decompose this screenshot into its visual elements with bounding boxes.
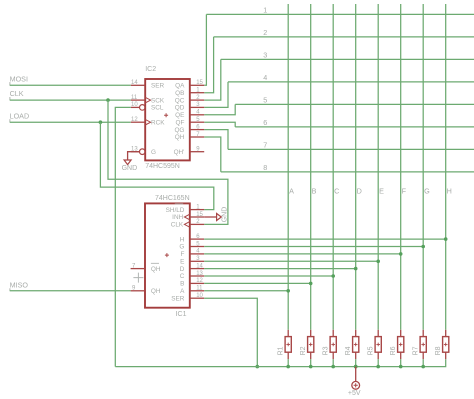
svg-text:R4: R4 (345, 346, 352, 355)
op IC1 74HC165N box (145, 203, 190, 307)
junction SER rail (255, 365, 259, 369)
svg-text:12: 12 (131, 117, 138, 123)
wire MOSI (10, 84, 131, 86)
svg-text:CLK: CLK (10, 89, 24, 98)
svg-text:QA: QA (175, 83, 185, 90)
wire QC to row 3 (204, 59, 221, 100)
pin 1 QB IC2 (190, 92, 204, 94)
pin 4 F IC1 (190, 253, 204, 255)
svg-text:SCL: SCL (151, 105, 164, 112)
svg-text:15: 15 (196, 80, 203, 86)
svg-text:SER: SER (171, 295, 185, 302)
svg-text:IC2: IC2 (145, 66, 156, 73)
wire QA to row 1 (204, 14, 206, 85)
pin 9 QH IC1 (131, 290, 145, 292)
svg-text:14: 14 (196, 263, 203, 269)
pin 13 C IC1 (190, 275, 204, 277)
resistor R4 (355, 330, 357, 337)
svg-text:MISO: MISO (10, 281, 29, 290)
junction R5 rail (376, 365, 380, 369)
pin 10 SCL IC2 (140, 105, 146, 111)
svg-text:F: F (180, 251, 184, 258)
svg-text:GND: GND (221, 207, 228, 223)
svg-text:R1: R1 (278, 346, 285, 355)
wire SER to rail (204, 298, 257, 366)
svg-text:5: 5 (263, 96, 267, 105)
svg-text:13: 13 (196, 271, 203, 277)
wire MISO (10, 290, 131, 292)
wire row net 4 (228, 81, 474, 83)
svg-text:3: 3 (263, 51, 267, 60)
junction R1 rail (286, 365, 290, 369)
wire column net D (355, 4, 357, 330)
overline LD (175, 203, 183, 205)
junction R3 rail (331, 365, 335, 369)
svg-text:QH: QH (175, 134, 185, 141)
svg-text:C: C (334, 186, 339, 195)
svg-text:2: 2 (263, 28, 267, 37)
svg-text:11: 11 (131, 95, 138, 101)
origin cross gray (133, 273, 143, 283)
svg-text:QC: QC (175, 97, 185, 104)
svg-text:H: H (180, 236, 185, 243)
wire column net A (287, 4, 289, 330)
svg-text:RCK: RCK (151, 119, 165, 126)
wire LOAD to IC1 (100, 122, 213, 209)
pin 3 QD IC2 (190, 106, 204, 108)
svg-text:CLK: CLK (171, 222, 184, 229)
pin 1 SH/LD IC1 (190, 209, 204, 211)
svg-text:8: 8 (263, 163, 267, 172)
svg-text:+5V: +5V (348, 390, 361, 397)
svg-text:74HC595N: 74HC595N (145, 163, 180, 170)
pin 12 RCK IC2 (131, 121, 145, 123)
overline QH pin7 (151, 262, 159, 264)
wire SCL to +5V rail (115, 107, 131, 366)
svg-text:11: 11 (196, 286, 203, 292)
svg-text:QB: QB (175, 90, 184, 97)
wire column net E (377, 4, 379, 330)
wire column net B (310, 4, 312, 330)
wire QF to row 6 (204, 122, 235, 127)
wire QB to row 2 (204, 37, 213, 93)
svg-text:GND: GND (122, 165, 138, 172)
svg-text:A: A (180, 288, 185, 295)
wire E input (204, 260, 378, 262)
resistor R5 (377, 330, 379, 337)
pin 6 QG IC2 (190, 129, 204, 131)
junction +5V tap (354, 365, 358, 369)
svg-text:14: 14 (131, 80, 138, 86)
junction F (399, 252, 403, 256)
junction C (331, 274, 335, 278)
ground GND INH (204, 216, 216, 218)
junction H (444, 237, 448, 241)
resistor R1 (287, 330, 289, 337)
svg-text:QH: QH (151, 266, 161, 273)
ground GND IC2 (128, 152, 140, 160)
junction R4 rail (354, 365, 358, 369)
junction D (354, 267, 358, 271)
svg-text:6: 6 (263, 118, 267, 127)
svg-text:10: 10 (196, 293, 203, 299)
pin 11 A IC1 (190, 290, 204, 292)
pin 13 G IC2 (140, 149, 146, 155)
wire LOAD (10, 121, 131, 123)
pin 15 INH IC1 (190, 216, 204, 218)
svg-text:QD: QD (175, 105, 185, 112)
junction CLK (106, 98, 110, 102)
wire row net 3 (221, 58, 474, 60)
wire A input (204, 290, 288, 292)
svg-text:74HC165N: 74HC165N (155, 195, 190, 202)
pin 4 QE IC2 (190, 114, 204, 116)
svg-text:G: G (151, 149, 156, 156)
pin 2 QC IC2 (190, 99, 204, 101)
pin 14 SER IC2 (131, 84, 145, 86)
origin cross IC1 (165, 253, 169, 257)
wire column net C (332, 4, 334, 330)
junction A (286, 289, 290, 293)
pin 11 SCK IC2 (131, 99, 145, 101)
junction E (376, 260, 380, 264)
svg-text:LOAD: LOAD (10, 111, 30, 120)
svg-text:SCK: SCK (151, 97, 165, 104)
wire row net 8 (221, 171, 474, 173)
svg-text:E: E (180, 259, 184, 266)
wire CLK to IC1 (108, 100, 228, 224)
power +5V (355, 367, 357, 382)
svg-text:SER: SER (151, 83, 165, 90)
svg-text:D: D (357, 186, 362, 195)
resistor R6 (400, 330, 402, 337)
wire CLK (10, 99, 131, 101)
wire column net H (445, 4, 447, 330)
svg-text:D: D (180, 266, 185, 273)
svg-text:7: 7 (263, 141, 267, 150)
svg-text:R3: R3 (323, 346, 330, 355)
svg-text:R7: R7 (413, 346, 420, 355)
svg-text:G: G (424, 186, 430, 195)
wire G input (204, 246, 423, 248)
pin 12 B IC1 (190, 282, 204, 284)
wire row net 6 (235, 126, 474, 128)
wire F input (204, 253, 401, 255)
junction R2 rail (309, 365, 313, 369)
pin 9 QH' IC2 (190, 151, 204, 153)
op IC2 74HC595N box (145, 79, 190, 160)
svg-text:10: 10 (131, 102, 138, 108)
svg-text:R6: R6 (390, 346, 397, 355)
svg-text:F: F (402, 186, 407, 195)
svg-text:R2: R2 (300, 346, 307, 355)
svg-text:R8: R8 (435, 346, 442, 355)
svg-text:QH': QH' (174, 149, 185, 156)
wire row net 1 (206, 13, 474, 15)
pin 6 H IC1 (190, 238, 204, 240)
svg-text:G: G (179, 244, 184, 251)
wire row net 5 (235, 103, 474, 105)
wire column net F (400, 4, 402, 330)
svg-text:B: B (180, 281, 184, 288)
wire H input (204, 238, 446, 240)
resistor R3 (332, 330, 334, 337)
pin 7 QH IC1 (131, 268, 145, 270)
pin 14 D IC1 (190, 268, 204, 270)
svg-text:4: 4 (263, 73, 267, 82)
junction LOAD (99, 120, 103, 124)
svg-text:H: H (447, 186, 452, 195)
wire QD to row 4 (204, 82, 228, 108)
wire C input (204, 275, 333, 277)
junction B (309, 282, 313, 286)
svg-text:MOSI: MOSI (10, 74, 28, 83)
svg-text:QH: QH (151, 288, 161, 295)
wire D input (204, 268, 356, 270)
svg-text:1: 1 (263, 6, 267, 15)
pin 3 E IC1 (190, 260, 204, 262)
wire column net G (422, 4, 424, 330)
wire B input (204, 282, 311, 284)
svg-text:SH/LD: SH/LD (166, 207, 185, 214)
svg-text:A: A (289, 186, 294, 195)
junction R6 rail (399, 365, 403, 369)
resistor R7 (422, 330, 424, 337)
svg-text:R5: R5 (368, 346, 375, 355)
svg-text:QG: QG (174, 127, 184, 134)
wire +5V rail (115, 359, 445, 366)
wire QE to row 5 (204, 104, 235, 114)
svg-text:INH: INH (172, 214, 183, 221)
junction G (421, 245, 425, 249)
wire row net 2 (214, 36, 474, 38)
svg-text:QE: QE (175, 112, 184, 119)
wire QH to row 8 (204, 137, 221, 172)
origin cross IC2 (164, 113, 168, 117)
svg-text:15: 15 (196, 212, 203, 218)
svg-text:E: E (379, 186, 384, 195)
svg-text:B: B (312, 186, 317, 195)
svg-text:C: C (180, 273, 185, 280)
wire QG to row 7 (204, 130, 228, 150)
svg-text:IC1: IC1 (176, 311, 187, 318)
wire row net 7 (228, 148, 474, 150)
svg-text:12: 12 (196, 278, 203, 284)
pin 5 G IC1 (190, 246, 204, 248)
pin 5 QF IC2 (190, 121, 204, 123)
resistor R8 (445, 330, 447, 337)
pin 2 CLK IC1 (190, 223, 204, 225)
pin 15 QA IC2 (190, 84, 204, 86)
svg-text:QF: QF (176, 119, 185, 126)
resistor R2 (310, 330, 312, 337)
junction R7 rail (421, 365, 425, 369)
pin 10 SER IC1 (190, 297, 204, 299)
pin 7 QH IC2 (190, 136, 204, 138)
